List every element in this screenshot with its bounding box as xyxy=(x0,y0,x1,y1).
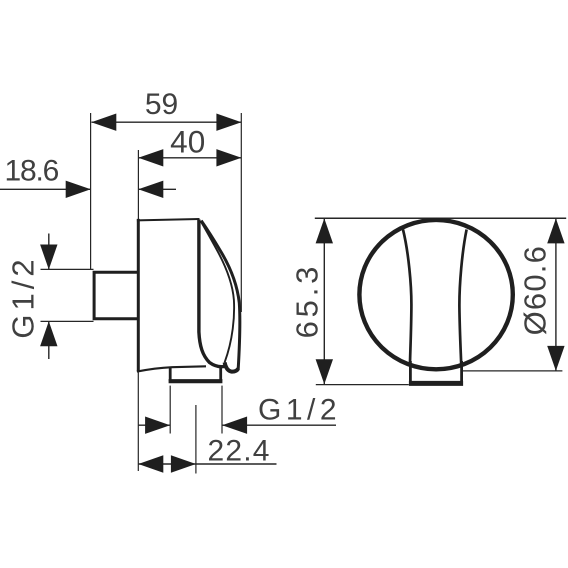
side view: bottom outlet stub base xyxy=(169,379,223,383)
dim 18.6 label xyxy=(5,155,59,188)
dim 59 line xyxy=(92,121,242,123)
svg-text:40: 40 xyxy=(170,123,205,159)
bottom ext line stub right xyxy=(221,386,223,434)
dim 40 arrows xyxy=(138,149,241,166)
svg-text:G1/2: G1/2 xyxy=(6,255,41,338)
svg-text:G1/2: G1/2 xyxy=(258,393,341,426)
bottom G1/2 label xyxy=(258,393,341,426)
side view: dome inner curve xyxy=(201,221,235,362)
svg-text:65.3: 65.3 xyxy=(290,263,325,339)
svg-text:18.6: 18.6 xyxy=(5,155,59,188)
extension line x241 xyxy=(240,113,242,312)
dim 22.4 label xyxy=(208,434,271,467)
dim 22.4 arrows xyxy=(138,455,196,472)
front view: cone right edge xyxy=(459,230,466,367)
dim dia60.6 label xyxy=(518,245,553,335)
side view: wall stub G1/2 xyxy=(94,272,138,318)
bottom G1/2 dim line xyxy=(138,424,336,426)
left G1/2 extension lines xyxy=(41,269,94,321)
side view: body top edge xyxy=(137,219,200,220)
side view: dome outer curve xyxy=(201,221,240,369)
side view: dome bottom curl xyxy=(225,362,239,371)
left G1/2 arrows xyxy=(40,245,57,347)
svg-text:22.4: 22.4 xyxy=(208,434,271,467)
front view: escutcheon circle xyxy=(359,220,512,369)
svg-text:Ø60.6: Ø60.6 xyxy=(518,245,553,335)
bottom ext line stub left xyxy=(169,386,171,434)
dim 18.6 line xyxy=(0,188,176,190)
dim 65.3 arrows xyxy=(316,218,333,384)
svg-text:59: 59 xyxy=(145,88,178,121)
front view: bottom outlet stub base xyxy=(409,381,463,386)
dim dia60.6 line xyxy=(555,218,557,371)
front view: cone left edge xyxy=(403,230,411,367)
bottom G1/2 arrows xyxy=(145,417,247,434)
dim 59 arrows xyxy=(91,114,241,131)
side view: body bottom edge xyxy=(137,366,206,371)
bottom outlet center line xyxy=(195,405,197,474)
dim 40 label xyxy=(170,123,205,159)
dim 59 label xyxy=(145,88,178,121)
left G1/2 dim line xyxy=(48,234,50,360)
ext line x138 bottom xyxy=(137,372,139,472)
side view: body left edge xyxy=(137,219,140,372)
dim 40 line xyxy=(138,157,241,159)
extension line x138 top xyxy=(137,150,139,219)
dim 65.3 label xyxy=(290,263,325,339)
front view: bottom ext line left (65.3) xyxy=(316,384,409,386)
dim dia60.6 arrows xyxy=(547,218,564,371)
side view: bottom outlet stub xyxy=(170,367,221,381)
front view: bottom outlet stub xyxy=(410,361,461,384)
dim 18.6 arrows xyxy=(66,181,164,198)
extension line x91 xyxy=(90,113,92,270)
front view: bottom ext line right (dia) xyxy=(462,370,562,372)
front view: top tangent extension line xyxy=(315,217,566,219)
left G1/2 label xyxy=(6,255,41,338)
dim 22.4 line xyxy=(138,463,276,465)
side view: flange edge line xyxy=(199,220,225,367)
dim 65.3 line xyxy=(323,218,325,384)
